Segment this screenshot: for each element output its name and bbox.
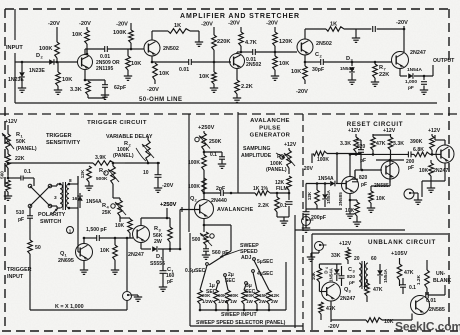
svg-text:+12V: +12V — [339, 241, 352, 247]
svg-text:2N247: 2N247 — [410, 50, 426, 56]
svg-text:UNBLANK CIRCUIT: UNBLANK CIRCUIT — [368, 239, 436, 246]
svg-text:pF: pF — [18, 217, 24, 223]
svg-text:AMPLIFIER AND STRETCHER: AMPLIFIER AND STRETCHER — [180, 13, 300, 20]
svg-text:PULSE: PULSE — [259, 126, 281, 132]
svg-text:1N23E: 1N23E — [8, 77, 24, 83]
svg-text:12K: 12K — [80, 169, 86, 178]
svg-text:5μSEC: 5μSEC — [257, 259, 274, 265]
svg-text:D: D — [346, 56, 350, 62]
svg-text:R: R — [16, 132, 20, 138]
svg-text:SWEEP INPUT: SWEEP INPUT — [221, 312, 257, 318]
svg-text:1.2K: 1.2K — [416, 274, 422, 285]
svg-text:R: R — [379, 65, 383, 71]
svg-text:+250V: +250V — [198, 125, 215, 131]
svg-text:0.01: 0.01 — [246, 57, 256, 63]
svg-text:R: R — [154, 226, 158, 232]
svg-text:0.1: 0.1 — [210, 152, 217, 158]
svg-text:1N54A: 1N54A — [383, 268, 388, 282]
svg-text:10K: 10K — [279, 61, 289, 67]
svg-text:BLANK: BLANK — [433, 278, 451, 284]
svg-text:(PANEL): (PANEL) — [113, 153, 134, 159]
svg-text:2N502: 2N502 — [316, 41, 332, 47]
svg-text:100K: 100K — [113, 30, 126, 36]
svg-text:+12V: +12V — [383, 128, 396, 134]
svg-text:220K: 220K — [217, 39, 230, 45]
svg-text:33K: 33K — [331, 253, 341, 259]
svg-text:SENSITIVITY: SENSITIVITY — [46, 140, 80, 146]
svg-text:1N54A: 1N54A — [329, 267, 334, 281]
svg-text:10K: 10K — [115, 223, 125, 229]
svg-text:UN-: UN- — [436, 271, 445, 277]
svg-text:47K: 47K — [326, 306, 336, 312]
svg-text:16: 16 — [72, 196, 78, 202]
svg-text:2.2K: 2.2K — [258, 203, 269, 209]
svg-text:R: R — [99, 168, 103, 174]
svg-text:3.3K: 3.3K — [393, 141, 404, 147]
svg-text:47K: 47K — [376, 141, 386, 147]
svg-text:100K: 100K — [39, 46, 52, 52]
svg-text:2N247: 2N247 — [340, 296, 355, 302]
svg-text:AMPLITUDE: AMPLITUDE — [241, 153, 272, 159]
svg-text:(PANEL): (PANEL) — [266, 167, 287, 173]
svg-text:62pF: 62pF — [114, 85, 126, 91]
svg-text:3.3K: 3.3K — [70, 87, 82, 93]
svg-text:2W: 2W — [271, 299, 279, 304]
svg-text:K = X 1,000: K = X 1,000 — [55, 304, 84, 310]
svg-text:30K: 30K — [230, 293, 239, 298]
svg-text:1,500 pF: 1,500 pF — [86, 227, 107, 233]
svg-text:TRIGGER: TRIGGER — [7, 267, 32, 273]
svg-text:2N1195: 2N1195 — [96, 66, 113, 72]
svg-text:C: C — [315, 52, 319, 58]
svg-text:2N502: 2N502 — [163, 46, 179, 52]
svg-text:0.1: 0.1 — [24, 169, 31, 175]
svg-text:1N54A: 1N54A — [340, 66, 355, 71]
svg-text:2N247: 2N247 — [433, 168, 448, 174]
svg-text:47K: 47K — [404, 270, 414, 276]
svg-text:25K: 25K — [102, 210, 112, 216]
svg-text:2N585: 2N585 — [429, 307, 445, 313]
svg-text:+12V: +12V — [348, 128, 361, 134]
svg-text:pF: pF — [167, 279, 173, 285]
svg-text:-20V: -20V — [79, 21, 91, 27]
svg-text:560: 560 — [0, 171, 5, 179]
svg-text:12K: 12K — [275, 180, 285, 186]
svg-text:AVALANCHE: AVALANCHE — [250, 118, 290, 124]
svg-text:pF: pF — [349, 280, 355, 286]
svg-text:-20V: -20V — [266, 21, 278, 27]
svg-text:POLARITY: POLARITY — [38, 212, 66, 218]
svg-text:-20V: -20V — [302, 166, 313, 172]
svg-text:-20V: -20V — [48, 21, 60, 27]
svg-text:500: 500 — [192, 237, 201, 243]
svg-text:+105V: +105V — [391, 251, 408, 257]
svg-text:1W: 1W — [246, 299, 254, 304]
svg-text:22K: 22K — [379, 72, 389, 78]
svg-text:1K: 1K — [330, 22, 337, 28]
svg-text:1N54A: 1N54A — [86, 199, 102, 205]
svg-text:10K: 10K — [311, 271, 316, 280]
svg-text:-20V: -20V — [328, 324, 340, 330]
svg-text:250K: 250K — [209, 139, 222, 145]
svg-text:FILM: FILM — [276, 186, 288, 192]
svg-text:50K: 50K — [16, 139, 26, 145]
svg-text:120K: 120K — [279, 39, 292, 45]
svg-text:-20V: -20V — [201, 22, 213, 28]
svg-text:50-OHM LINE: 50-OHM LINE — [139, 97, 183, 103]
svg-text:(PANEL): (PANEL) — [16, 146, 37, 152]
svg-text:10K: 10K — [100, 248, 110, 254]
svg-text:0.01: 0.01 — [179, 67, 189, 73]
svg-text:3.3K: 3.3K — [340, 141, 351, 147]
svg-text:1K: 1K — [174, 23, 181, 29]
svg-text:510: 510 — [16, 210, 25, 216]
svg-text:AVALANCHE: AVALANCHE — [217, 207, 253, 213]
svg-text:12K: 12K — [307, 191, 312, 200]
svg-text:500K: 500K — [96, 176, 108, 182]
svg-text:SWEEP SPEED SELECTOR (PANEL): SWEEP SPEED SELECTOR (PANEL) — [196, 320, 286, 326]
svg-text:TRIGGER CIRCUIT: TRIGGER CIRCUIT — [87, 120, 147, 126]
svg-text:SWITCH: SWITCH — [40, 219, 61, 225]
svg-text:50: 50 — [35, 245, 41, 251]
svg-text:1N54A: 1N54A — [407, 67, 422, 73]
svg-text:12K: 12K — [271, 293, 280, 298]
svg-text:2N247: 2N247 — [128, 252, 144, 258]
svg-text:+250V: +250V — [160, 202, 177, 208]
svg-text:100K: 100K — [188, 160, 200, 166]
svg-text:10K: 10K — [376, 196, 386, 202]
svg-text:0.1: 0.1 — [409, 285, 416, 291]
svg-text:60: 60 — [371, 256, 377, 262]
svg-text:22K: 22K — [15, 156, 25, 162]
svg-text:VARIABLE DELAY: VARIABLE DELAY — [106, 134, 153, 140]
svg-text:1,000: 1,000 — [405, 79, 417, 85]
svg-text:OUTPUT: OUTPUT — [433, 58, 455, 64]
svg-text:10K: 10K — [199, 74, 209, 80]
svg-text:20K: 20K — [202, 293, 211, 298]
svg-text:-20V: -20V — [296, 89, 308, 95]
svg-text:RESET CIRCUIT: RESET CIRCUIT — [347, 121, 404, 128]
svg-text:3: 3 — [54, 195, 57, 201]
svg-text:pF: pF — [408, 85, 414, 91]
svg-text:INPUT: INPUT — [7, 274, 24, 280]
svg-text:0.5μSEC: 0.5μSEC — [185, 268, 206, 274]
svg-text:1N54A: 1N54A — [326, 189, 331, 203]
svg-text:100K: 100K — [317, 157, 329, 163]
svg-text:10K: 10K — [62, 77, 72, 83]
svg-text:-20V: -20V — [147, 87, 159, 93]
svg-text:C: C — [348, 267, 352, 273]
svg-text:10K: 10K — [419, 168, 429, 174]
svg-text:20: 20 — [354, 256, 360, 262]
svg-text:10K: 10K — [291, 69, 301, 75]
svg-text:-20V: -20V — [116, 22, 128, 28]
svg-text:GENERATOR: GENERATOR — [250, 133, 291, 139]
svg-text:0.01: 0.01 — [100, 54, 110, 60]
svg-text:0.1: 0.1 — [280, 203, 287, 209]
svg-text:D: D — [36, 53, 40, 59]
svg-text:47K: 47K — [373, 287, 383, 293]
svg-text:30pF: 30pF — [312, 67, 324, 73]
svg-text:2.2K: 2.2K — [241, 84, 253, 90]
svg-text:10K: 10K — [131, 61, 141, 67]
svg-text:pF: pF — [361, 182, 367, 188]
svg-text:-20V: -20V — [162, 183, 174, 189]
svg-text:1N23E: 1N23E — [29, 68, 45, 74]
svg-text:1W: 1W — [230, 299, 238, 304]
svg-text:-20V: -20V — [228, 21, 240, 27]
svg-text:2pF: 2pF — [216, 186, 225, 192]
svg-text:2W: 2W — [154, 239, 162, 245]
svg-text:10: 10 — [143, 170, 149, 176]
svg-text:2N695: 2N695 — [58, 258, 74, 264]
svg-text:10K: 10K — [159, 71, 169, 77]
svg-text:TRIGGER: TRIGGER — [46, 133, 71, 139]
svg-text:1N54A: 1N54A — [318, 176, 334, 182]
svg-text:2N585: 2N585 — [338, 192, 343, 206]
svg-text:INPUT: INPUT — [6, 45, 23, 51]
svg-text:SeekIC.com: SeekIC.com — [395, 320, 460, 334]
svg-text:R: R — [102, 203, 106, 209]
svg-text:10K: 10K — [72, 32, 82, 38]
svg-text:820: 820 — [347, 274, 355, 280]
svg-text:4.7K: 4.7K — [245, 40, 257, 46]
svg-text:820: 820 — [359, 175, 368, 181]
svg-text:390K: 390K — [410, 139, 423, 145]
svg-text:2N440: 2N440 — [211, 198, 227, 204]
svg-text:D: D — [156, 254, 160, 260]
svg-text:1/2W: 1/2W — [202, 299, 213, 304]
svg-text:+12V: +12V — [284, 142, 297, 148]
svg-text:ADJ: ADJ — [241, 255, 251, 261]
svg-text:20K: 20K — [246, 293, 255, 298]
svg-text:pF: pF — [408, 165, 414, 171]
svg-text:2W: 2W — [259, 299, 267, 304]
svg-text:1K 1%: 1K 1% — [253, 186, 269, 192]
svg-text:100K: 100K — [188, 184, 200, 190]
svg-text:SAMPLING: SAMPLING — [243, 146, 270, 152]
svg-text:-20V: -20V — [396, 20, 408, 26]
svg-text:+12V: +12V — [5, 119, 18, 125]
svg-text:+12V: +12V — [428, 128, 441, 134]
